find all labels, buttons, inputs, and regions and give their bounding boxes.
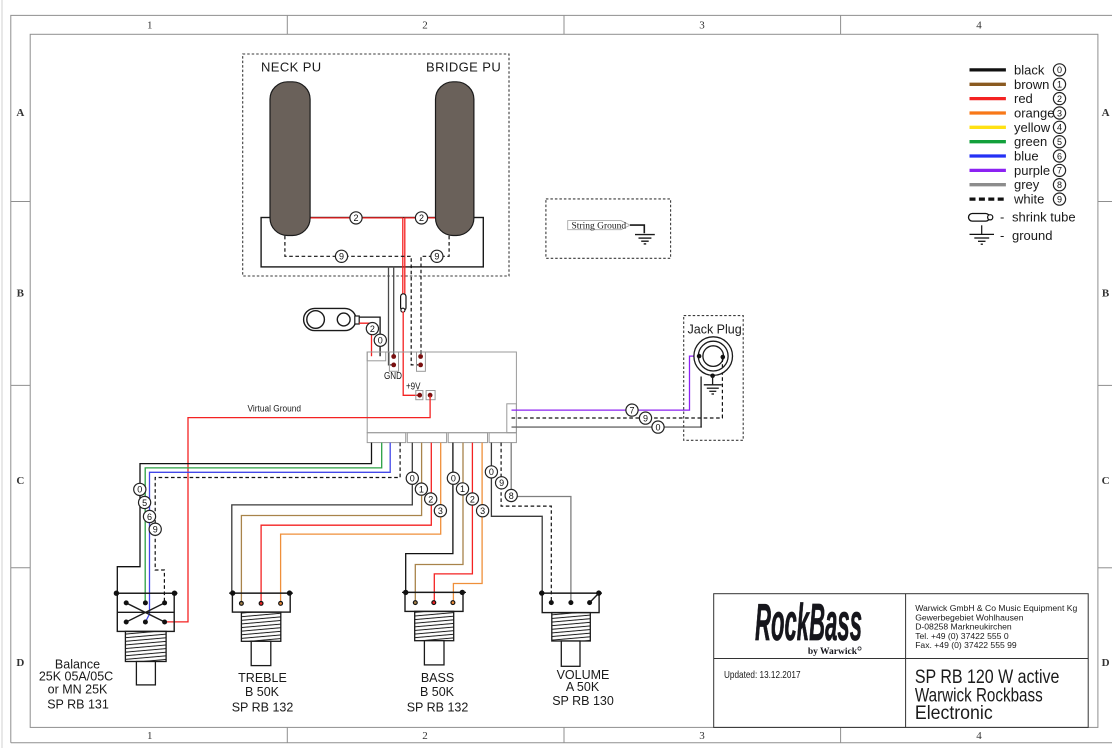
legend brown wire sample: [970, 83, 1006, 86]
label 2 bridge hot: [415, 212, 427, 224]
wire grey output: [512, 426, 702, 428]
label 1 bass: [456, 483, 468, 495]
svg-text:String Ground: String Ground: [572, 221, 627, 231]
label 0 grey: [652, 421, 664, 433]
label 9 bridge white: [431, 250, 443, 262]
svg-text:BRIDGE PU: BRIDGE PU: [426, 60, 501, 75]
svg-text:D: D: [1102, 657, 1110, 669]
svg-text:SP RB 132: SP RB 132: [232, 701, 294, 715]
circuit board outline: [367, 352, 516, 433]
jack socket circles: [694, 337, 733, 376]
label 2 bass: [466, 493, 478, 505]
wire red joined to +9V pad: [403, 311, 418, 395]
svg-text:TREBLE: TREBLE: [238, 671, 287, 685]
balance shaft: [136, 662, 155, 685]
page left edge line: [1, 0, 3, 748]
label 0 treble: [406, 472, 418, 484]
svg-text:9: 9: [434, 252, 439, 262]
wire red treble: [261, 443, 431, 604]
jack tip terminal: [697, 354, 702, 359]
svg-text:3: 3: [480, 506, 485, 516]
svg-text:0: 0: [451, 474, 456, 484]
label 9 white: [639, 412, 651, 424]
svg-text:SP RB 132: SP RB 132: [407, 701, 469, 715]
label 6 balance: [143, 510, 155, 522]
legend ground symbol: [970, 225, 1053, 244]
svg-text:3: 3: [1057, 108, 1062, 118]
wire white neck: [285, 236, 418, 365]
wire black volume: [491, 443, 542, 592]
svg-text:A: A: [1102, 107, 1110, 119]
svg-text:3: 3: [699, 20, 705, 32]
svg-text:1: 1: [419, 484, 424, 494]
label 5 balance: [139, 496, 151, 508]
label 2 treble: [425, 493, 437, 505]
title text: [915, 667, 1060, 724]
string ground wire: [630, 225, 644, 233]
balance pot body: [114, 593, 178, 631]
svg-text:8: 8: [509, 491, 514, 501]
svg-text:0: 0: [410, 474, 415, 484]
svg-text:2: 2: [422, 20, 428, 32]
svg-text:white: white: [1013, 192, 1044, 207]
string ground dashed enclosure: [546, 199, 671, 258]
svg-text:4: 4: [976, 20, 982, 32]
label 2 neck hot: [350, 212, 362, 224]
ruler tick left C|D: [11, 567, 30, 569]
jack ground wire: [712, 376, 714, 385]
string ground flag label: [568, 221, 630, 232]
wire black battery: [359, 317, 380, 356]
svg-text:0: 0: [137, 485, 142, 495]
svg-text:6: 6: [147, 512, 152, 522]
jack dashed enclosure: [684, 316, 744, 441]
title block outline: [714, 594, 1088, 728]
ruler tick top 1|2: [286, 15, 288, 34]
svg-text:D: D: [16, 657, 24, 669]
ruler tick right B|C: [1098, 384, 1112, 386]
svg-text:3: 3: [438, 506, 443, 516]
svg-text:7: 7: [1057, 166, 1062, 176]
wire black jack sleeve: [700, 377, 702, 428]
RockBass logo: [755, 594, 862, 657]
svg-text:blue: blue: [1014, 149, 1039, 164]
svg-text:9: 9: [153, 525, 158, 535]
svg-text:GND: GND: [384, 371, 402, 382]
legend black wire sample: [970, 68, 1006, 71]
svg-text:A: A: [16, 107, 24, 119]
label 0 volume: [485, 466, 497, 478]
bass pot body: [402, 592, 466, 611]
board pad virtual ground: [426, 391, 435, 400]
svg-text:green: green: [1014, 134, 1047, 149]
svg-text:RockBass: RockBass: [755, 594, 862, 652]
wire white bridge: [421, 236, 449, 355]
balance bushing: [125, 631, 166, 661]
svg-text:grey: grey: [1014, 177, 1040, 192]
ruler tick top 3|4: [840, 15, 842, 34]
label 7 purple: [626, 404, 638, 416]
wire green balance: [145, 443, 382, 603]
wire orange bass: [453, 443, 482, 603]
svg-text:C: C: [1102, 475, 1110, 487]
svg-text:9: 9: [1057, 194, 1062, 204]
svg-text:Updated: 13.12.2017: Updated: 13.12.2017: [724, 670, 801, 681]
jack ring terminal: [721, 355, 726, 367]
legend white wire sample (dashed): [970, 197, 1006, 200]
svg-text:black: black: [1014, 62, 1045, 77]
board output box: [507, 404, 517, 433]
svg-text:0: 0: [1057, 65, 1062, 75]
ruler tick bottom 2|3: [563, 727, 565, 742]
svg-text:9: 9: [499, 478, 504, 488]
label 3 treble: [434, 505, 446, 517]
wire grey volume: [511, 443, 571, 603]
svg-text:9: 9: [339, 252, 344, 262]
svg-text:yellow: yellow: [1014, 120, 1051, 135]
volume pot body: [539, 593, 602, 613]
bass terminals: [413, 600, 456, 605]
svg-text:2: 2: [422, 730, 428, 742]
ruler numbers top: [147, 20, 982, 32]
board connector D: [489, 433, 516, 443]
svg-text:9: 9: [643, 413, 648, 423]
svg-text:brown: brown: [1014, 77, 1049, 92]
bass casing dots: [403, 590, 465, 595]
treble pot label: [232, 671, 294, 715]
wire blue balance: [145, 443, 390, 622]
svg-text:BASS: BASS: [421, 671, 454, 685]
legend green wire sample: [970, 140, 1006, 143]
ruler tick top 2|3: [563, 15, 565, 34]
wire brown treble: [241, 443, 421, 604]
ruler letters left: [16, 107, 24, 669]
svg-text:B: B: [17, 288, 25, 300]
legend red wire sample: [970, 97, 1006, 100]
svg-text:5: 5: [1057, 137, 1062, 147]
treble shaft: [251, 641, 271, 665]
board connector C: [448, 433, 487, 443]
board pad white wires: [417, 352, 426, 371]
svg-text:2: 2: [419, 213, 424, 223]
bass shaft: [424, 641, 444, 665]
bass bushing: [415, 611, 454, 640]
ruler tick left B|C: [11, 384, 30, 386]
svg-text:3: 3: [699, 730, 705, 742]
neck pickup: [270, 82, 310, 236]
svg-text:1: 1: [147, 20, 153, 32]
balance pot label: [39, 658, 113, 712]
wire red virtual ground: [165, 396, 431, 622]
svg-text:by Warwick: by Warwick: [808, 647, 858, 657]
wire black treble: [232, 443, 412, 592]
label 0 bass: [447, 472, 459, 484]
svg-text:SP RB 130: SP RB 130: [552, 694, 614, 708]
svg-text:Electronic: Electronic: [915, 703, 993, 724]
bass pot label: [407, 671, 469, 715]
wire orange treble: [281, 443, 441, 604]
wire red neck hot: [308, 218, 403, 295]
bridge pickup: [436, 82, 474, 236]
svg-text:or MN 25K: or MN 25K: [48, 683, 108, 697]
board connector B: [407, 433, 446, 443]
svg-text:25K 05A/05C: 25K 05A/05C: [39, 670, 113, 684]
svg-text:2: 2: [353, 213, 358, 223]
ruler tick bottom 1|2: [286, 727, 288, 742]
treble terminals: [239, 601, 283, 606]
wire white balance: [155, 443, 400, 603]
svg-text:1: 1: [147, 730, 153, 742]
wire brown bass: [415, 443, 463, 603]
ruler numbers bottom: [147, 730, 982, 742]
label 3 bass: [477, 505, 489, 517]
legend circled numbers 0-9: [1053, 64, 1065, 205]
jack sleeve terminal: [710, 374, 715, 379]
wire purple output: [512, 356, 699, 410]
svg-text:4: 4: [976, 730, 982, 742]
svg-text:1: 1: [460, 484, 465, 494]
svg-text:5: 5: [142, 498, 147, 508]
board pad +9V: [416, 391, 423, 400]
svg-text:2: 2: [1057, 94, 1062, 104]
label 9 volume: [496, 477, 508, 489]
wire grey shield left: [389, 266, 393, 365]
svg-text:2: 2: [428, 494, 433, 504]
legend shrink tube symbol: [969, 210, 1076, 225]
volume shaft: [561, 641, 580, 666]
string ground symbol: [635, 235, 655, 244]
label 9 neck white: [335, 250, 347, 262]
svg-text:C: C: [16, 475, 24, 487]
treble bushing: [241, 612, 280, 641]
wire grey shield right: [393, 266, 395, 356]
wire red bass: [434, 443, 472, 603]
treble casing dots: [230, 590, 292, 595]
treble pot body: [229, 593, 293, 612]
shrink tube on red wires: [401, 294, 406, 312]
svg-text:purple: purple: [1014, 163, 1050, 178]
svg-text:A 50K: A 50K: [566, 680, 600, 694]
label 2 battery red: [366, 323, 378, 335]
board connector A: [367, 433, 406, 443]
label 9 balance: [149, 523, 161, 535]
svg-text:ground: ground: [1012, 228, 1052, 243]
label 1 treble: [415, 483, 427, 495]
svg-text:shrink tube: shrink tube: [1012, 210, 1076, 225]
svg-text:NECK PU: NECK PU: [261, 60, 322, 75]
company address text: [915, 603, 1077, 650]
legend orange wire sample: [970, 111, 1006, 114]
wire white output: [512, 373, 723, 418]
wire red battery: [359, 323, 371, 356]
balance pot casing dots: [114, 591, 177, 596]
ruler tick left A|B: [11, 201, 30, 203]
ruler tick right A|B: [1098, 201, 1112, 203]
svg-text:4: 4: [1057, 123, 1062, 133]
svg-text:SP RB 131: SP RB 131: [47, 698, 109, 712]
jack ground symbol: [704, 385, 722, 394]
volume pot label: [552, 668, 614, 708]
svg-text:red: red: [1014, 91, 1033, 106]
legend blue wire sample: [970, 154, 1006, 157]
volume bushing: [552, 613, 591, 641]
wire black bass: [406, 443, 453, 592]
svg-text:0: 0: [655, 422, 660, 432]
svg-text:6: 6: [1057, 151, 1062, 161]
balance terminals: [124, 600, 167, 624]
label 8 volume: [505, 489, 517, 501]
svg-text:0: 0: [378, 336, 383, 346]
svg-text:0: 0: [489, 467, 494, 477]
volume switch arm: [590, 593, 599, 603]
volume casing dots: [539, 590, 601, 595]
board pad shield (GND): [389, 352, 398, 371]
legend color names: [1013, 62, 1054, 206]
legend grey wire sample: [970, 183, 1006, 186]
volume terminals: [549, 600, 592, 605]
svg-text:-: -: [1000, 210, 1004, 225]
svg-text:B 50K: B 50K: [245, 685, 280, 699]
pickups dashed enclosure: [243, 54, 509, 276]
ruler tick bottom 3|4: [840, 727, 842, 742]
battery clip body: [304, 308, 360, 330]
svg-text:Fax. +49 (0) 37422 555 99: Fax. +49 (0) 37422 555 99: [915, 640, 1017, 650]
label 0 battery black: [374, 334, 386, 346]
ruler letters right: [1102, 107, 1110, 669]
wire black balance: [117, 443, 371, 592]
svg-text:orange: orange: [1014, 106, 1054, 121]
wire red bridge hot: [405, 218, 437, 295]
svg-text:-: -: [1000, 228, 1004, 243]
svg-text:B: B: [1102, 288, 1110, 300]
wire white volume: [501, 443, 551, 603]
svg-text:7: 7: [629, 405, 634, 415]
board pad battery: [367, 352, 386, 361]
svg-text:2: 2: [370, 324, 375, 334]
svg-text:1: 1: [1057, 80, 1062, 90]
svg-text:Jack Plug: Jack Plug: [688, 323, 742, 337]
svg-text:Virtual Ground: Virtual Ground: [248, 404, 302, 414]
svg-text:8: 8: [1057, 180, 1062, 190]
balance crossover X: [126, 603, 164, 622]
pickup base frame: [261, 218, 483, 267]
label 0 balance: [134, 483, 146, 495]
legend purple wire sample: [970, 169, 1006, 172]
ruler tick right C|D: [1098, 567, 1112, 569]
legend yellow wire sample: [970, 126, 1006, 129]
svg-text:2: 2: [470, 494, 475, 504]
svg-text:B 50K: B 50K: [420, 685, 455, 699]
